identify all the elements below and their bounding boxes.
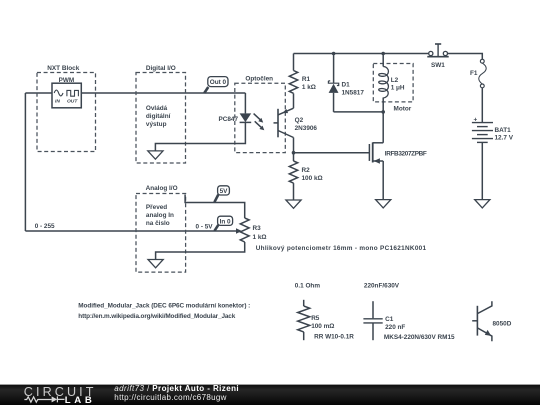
resistor R5 100 mOhm (298, 300, 355, 341)
wire left column vertical (PWM output to analog wiper) (24, 93, 26, 231)
capacitor C1 220nF (363, 301, 455, 341)
svg-text:NXT Block: NXT Block (47, 65, 79, 72)
svg-text:http://en.m.wikipedia.org/wiki: http://en.m.wikipedia.org/wiki/Modified_… (78, 313, 235, 320)
battery BAT1 12.7V (472, 117, 514, 143)
svg-text:F1: F1 (470, 70, 478, 77)
svg-text:220 nF: 220 nF (385, 324, 405, 331)
NXT Block dashed container (37, 73, 96, 152)
resistor R2 100 kOhm (289, 153, 322, 200)
svg-text:5V: 5V (220, 188, 229, 195)
wire LED cathode to digital ground (155, 122, 245, 150)
svg-text:IRFB3207ZPBF: IRFB3207ZPBF (385, 151, 427, 158)
svg-text:http://circuitlab.com/c678ugw: http://circuitlab.com/c678ugw (114, 393, 226, 402)
wire motor node to MOSFET drain (382, 98, 384, 143)
svg-text:analog In: analog In (146, 212, 174, 219)
svg-text:1 kΩ: 1 kΩ (253, 234, 267, 241)
node rail-D1 junction (332, 52, 336, 56)
svg-text:R3: R3 (253, 225, 262, 232)
PWM block U-PWM (52, 77, 81, 108)
svg-text:12.7 V: 12.7 V (495, 134, 514, 141)
wire LED anode drop (244, 93, 246, 113)
MOSFET IRFB3207ZPBF (369, 142, 426, 199)
wire F1 to battery (481, 88, 483, 123)
svg-text:1N5817: 1N5817 (342, 89, 365, 96)
svg-text:R5: R5 (311, 315, 320, 322)
svg-text:PC847: PC847 (218, 116, 238, 123)
svg-text:OUT: OUT (67, 99, 78, 105)
svg-text:8050D: 8050D (493, 321, 512, 328)
flag 5V (214, 186, 229, 202)
svg-text:RR W10-0.1R: RR W10-0.1R (314, 333, 354, 340)
Motor dashed container (373, 64, 413, 102)
svg-text:na čislo: na čislo (146, 220, 170, 227)
svg-text:0.1 Ohm: 0.1 Ohm (295, 283, 321, 290)
svg-text:220nF/630V: 220nF/630V (364, 283, 400, 290)
svg-text:C1: C1 (385, 316, 394, 323)
transistor Q2 2N3906 (274, 108, 318, 137)
footer bar (0, 384, 540, 405)
svg-text:digitální: digitální (146, 113, 171, 120)
diode D1 1N5817 schottky (328, 54, 364, 112)
svg-text:LAB: LAB (65, 395, 92, 405)
fuse F1 (470, 59, 486, 88)
svg-text:Digital I/O: Digital I/O (146, 65, 176, 72)
svg-text:2N3906: 2N3906 (295, 125, 318, 132)
ground MOSFET source (376, 200, 391, 208)
svg-text:Out 0: Out 0 (210, 79, 227, 86)
svg-text:D1: D1 (342, 81, 351, 88)
ground analog I/O (148, 260, 163, 268)
wire 5V net analog box to R3 top (185, 195, 245, 219)
svg-text:R2: R2 (302, 167, 311, 174)
flag In 0 (215, 216, 233, 231)
svg-text:100 kΩ: 100 kΩ (302, 175, 323, 182)
svg-text:100 mΩ: 100 mΩ (311, 323, 334, 330)
optocoupler light arrows (254, 114, 265, 131)
wire D1 anode to motor node (334, 111, 384, 113)
wire +12V rail (294, 53, 429, 55)
optocoupler LED PC847 (218, 93, 251, 123)
svg-text:Převed: Převed (146, 204, 167, 211)
svg-text:IN: IN (55, 99, 60, 105)
switch SW1 pushbutton (427, 44, 448, 69)
svg-text:0 - 5V: 0 - 5V (196, 223, 214, 230)
svg-text:1 kΩ: 1 kΩ (302, 84, 316, 91)
svg-text:Optočlen: Optočlen (245, 75, 273, 82)
Digital I/O dashed container (136, 73, 186, 164)
svg-text:Motor: Motor (394, 105, 412, 112)
resistor R1 1 kOhm (289, 54, 316, 94)
svg-text:Uhlikový potenciometr 16mm - m: Uhlikový potenciometr 16mm - mono PC1621… (256, 245, 427, 252)
Analog I/O dashed container (136, 194, 186, 273)
flag Out 0 (204, 77, 228, 93)
inductor L2 1uH (379, 54, 405, 99)
ground digital I/O (148, 151, 163, 159)
svg-text:Modified_Modular_Jack (DEC 6P6: Modified_Modular_Jack (DEC 6P6C modulárn… (78, 302, 250, 309)
wire battery negative to ground (481, 142, 483, 199)
svg-text:Analog I/O: Analog I/O (146, 185, 178, 192)
potentiometer R3 1 kOhm (156, 218, 267, 260)
wire bottom horizontal 0-255 net to R3 wiper (25, 230, 236, 232)
svg-text:výstup: výstup (146, 121, 167, 128)
svg-text:R1: R1 (302, 76, 311, 83)
Optočlen dashed container (235, 83, 285, 152)
svg-text:0 - 255: 0 - 255 (35, 223, 55, 230)
wire Q2 emitter up to R1 (293, 93, 295, 108)
ground battery (475, 200, 490, 208)
svg-text:Q2: Q2 (295, 117, 304, 124)
svg-text:1 μH: 1 μH (391, 84, 405, 91)
wire Q2 collector down to gate node (293, 138, 295, 153)
svg-text:L2: L2 (391, 77, 399, 84)
node rail-L2 junction (381, 52, 385, 56)
svg-text:MKS4-220N/630V RM15: MKS4-220N/630V RM15 (384, 334, 455, 341)
svg-text:Ovládá: Ovládá (146, 105, 168, 112)
svg-text:adrift73 / Projekt Auto - Rize: adrift73 / Projekt Auto - Rizeni (114, 384, 239, 393)
svg-text:SW1: SW1 (431, 62, 445, 69)
node motor junction dot (381, 110, 385, 114)
ground R2 (286, 200, 301, 208)
node gate junction dot (292, 151, 296, 155)
transistor 8050D (472, 301, 512, 341)
svg-text:BAT1: BAT1 (495, 127, 512, 134)
wire gate net to MOSFET (294, 152, 370, 154)
wire main top net from node left-column to optocoupler LED anode (25, 92, 245, 94)
svg-text:In 0: In 0 (220, 219, 231, 226)
